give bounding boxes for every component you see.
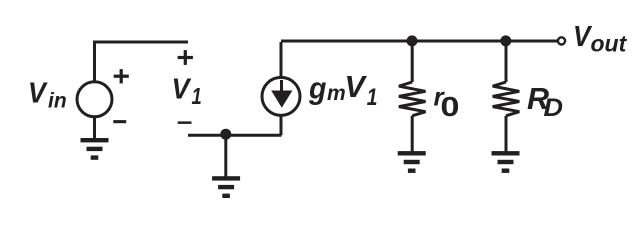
svg-text:g: g — [308, 71, 326, 105]
svg-text:1: 1 — [367, 83, 378, 111]
svg-text:in: in — [48, 90, 67, 113]
svg-text:V: V — [345, 70, 368, 104]
svg-text:m: m — [327, 82, 346, 105]
svg-text:out: out — [591, 31, 628, 57]
svg-text:D: D — [544, 93, 564, 122]
svg-text:V: V — [172, 73, 192, 105]
svg-text:V: V — [28, 76, 48, 108]
svg-text:1: 1 — [192, 84, 202, 109]
svg-text:0: 0 — [440, 91, 459, 122]
